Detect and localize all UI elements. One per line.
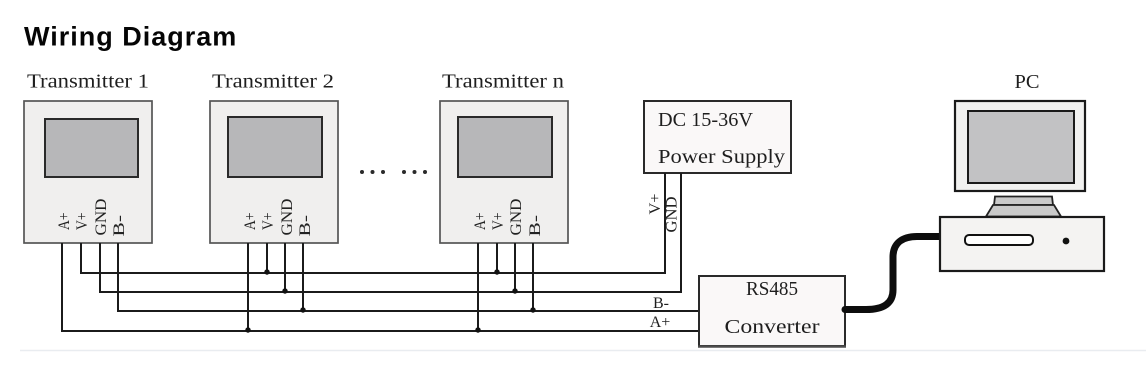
svg-text:GND: GND [279, 199, 296, 236]
svg-text:Converter: Converter [725, 316, 820, 338]
svg-text:V+: V+ [490, 213, 507, 231]
svg-text:A+: A+ [242, 213, 259, 231]
svg-text:A+: A+ [650, 314, 671, 331]
ellipsis dots between T2 and Tn [360, 170, 427, 174]
junction T2 V+ [264, 269, 269, 274]
svg-text:Transmitter 2: Transmitter 2 [212, 71, 334, 93]
cable from converter to PC [845, 237, 941, 310]
junction Tn V+ [494, 269, 499, 274]
transmitter Tn body [440, 101, 568, 243]
svg-text:Transmitter 1: Transmitter 1 [27, 71, 149, 93]
wire Tn GND stub [514, 243, 516, 292]
RS485 converter box bottom shadow [698, 345, 846, 347]
svg-text:B-: B- [297, 215, 314, 237]
transmitter T1 body [24, 101, 152, 243]
transmitter Tn display screen [458, 117, 552, 177]
svg-text:A+: A+ [56, 213, 73, 231]
transmitter T2 display screen [228, 117, 322, 177]
svg-text:V+: V+ [74, 213, 91, 231]
svg-text:GND: GND [93, 199, 110, 236]
PC system unit [940, 217, 1104, 271]
wire T2 GND stub [284, 243, 286, 292]
svg-text:Power Supply: Power Supply [658, 146, 785, 168]
PC monitor bezel [955, 101, 1085, 191]
wire Tn A+ stub [477, 243, 479, 331]
RS485 converter box [699, 276, 845, 346]
wire GND bus from T1 to power supply [100, 173, 681, 292]
svg-text:V+: V+ [647, 194, 664, 215]
wire Tn V+ stub [496, 243, 498, 273]
svg-text:Transmitter n: Transmitter n [442, 71, 564, 93]
transmitter T1 display screen [45, 119, 138, 177]
svg-text:GND: GND [508, 199, 525, 236]
PC monitor stand neck [994, 197, 1053, 206]
junction T2 B- [300, 307, 305, 312]
svg-text:B-: B- [653, 295, 669, 312]
junction Tn B- [530, 307, 535, 312]
PC monitor stand base [986, 205, 1061, 217]
wire T2 A+ stub [247, 243, 249, 331]
svg-text:Wiring Diagram: Wiring Diagram [24, 22, 237, 52]
svg-text:DC 15-36V: DC 15-36V [658, 109, 754, 131]
svg-text:PC: PC [1015, 71, 1040, 93]
PC monitor screen [968, 111, 1074, 183]
power supply U1 box [644, 101, 791, 173]
wire V+ bus from T1 to power supply [81, 173, 665, 273]
svg-text:B-: B- [527, 215, 544, 237]
wire Tn B- stub [532, 243, 534, 311]
junction T2 GND [282, 288, 287, 293]
svg-text:GND: GND [664, 197, 681, 233]
wire T2 B- stub [302, 243, 304, 311]
svg-text:A+: A+ [472, 213, 489, 231]
svg-text:B-: B- [111, 215, 128, 237]
PC system unit power button [1063, 238, 1070, 245]
PC system unit drive slot [965, 235, 1033, 245]
wire B- bus from T1 to RS485 converter [118, 243, 699, 311]
junction Tn A+ [475, 327, 480, 332]
transmitter T2 body [210, 101, 338, 243]
svg-text:V+: V+ [260, 213, 277, 231]
wire A+ bus from T1 to RS485 converter [62, 243, 699, 331]
junction T2 A+ [245, 327, 250, 332]
junction Tn GND [512, 288, 517, 293]
wire T2 V+ stub [266, 243, 268, 273]
svg-text:RS485: RS485 [746, 278, 798, 300]
